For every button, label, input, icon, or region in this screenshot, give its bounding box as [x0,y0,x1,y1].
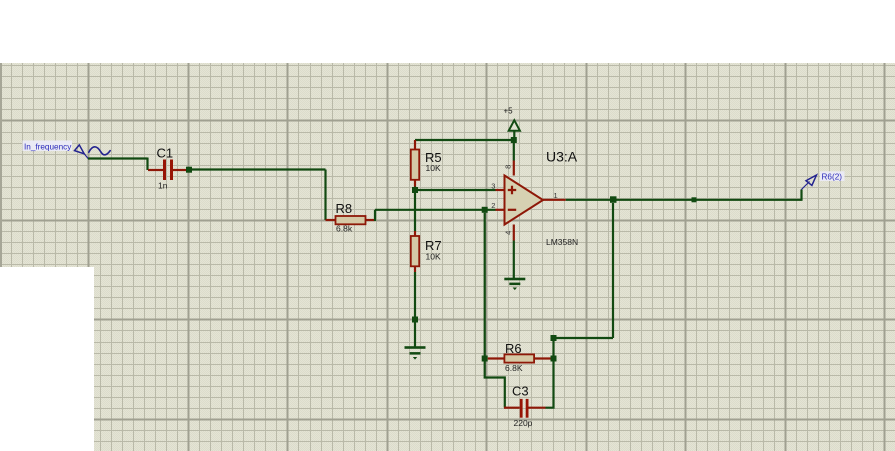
junction divider node [412,187,418,193]
pin 3 stub [496,189,505,191]
svg-text:3: 3 [491,181,495,190]
pin 4 stub [513,225,515,241]
junction at C1 output [186,167,192,173]
wire divider to pin3 [415,189,496,191]
junction +5 rail [511,137,517,143]
wire R8 up [374,210,376,221]
junction R6 right [551,356,557,362]
resistor R6 [488,354,551,362]
wire R7 to ground [414,272,416,347]
pin 2 stub [496,209,505,211]
node In_frequency label [23,141,73,152]
svg-text:8: 8 [503,165,512,169]
input terminal symbol [75,145,89,159]
svg-text:6.8K: 6.8K [505,363,523,373]
capacitor C1 [148,160,187,181]
wire R5 top to +5 rail [415,139,514,141]
junction R6 left [482,356,488,362]
svg-text:U3:A: U3:A [546,148,578,164]
wire inverting node down [484,213,486,359]
wire divider down to R7 [414,190,416,231]
op-amp U3:A [505,176,544,225]
wire R5 to divider node [414,187,416,191]
wire feedback to R6 right [552,338,554,359]
input sine wave symbol [89,147,110,155]
svg-text:R8: R8 [336,201,353,216]
junction at inverting input node [482,207,488,213]
junction on R7 ground wire [412,317,418,323]
wire down to R8 [324,170,326,221]
wire input horizontal [88,157,148,159]
svg-text:In_frequency: In_frequency [24,142,72,151]
junction feedback corner [551,335,557,341]
wire R8 to pin2 [375,209,496,211]
svg-text:1n: 1n [158,181,168,191]
svg-text:LM358N: LM358N [546,237,578,247]
wire output terminal riser [800,190,802,201]
svg-text:C3: C3 [512,383,529,398]
svg-text:10K: 10K [426,251,441,261]
resistor R5 [411,140,419,187]
ground symbol under R7 [405,346,426,359]
svg-text:C1: C1 [157,145,174,160]
wire feedback horizontal [554,337,614,339]
output terminal arrow [801,175,816,190]
svg-text:2: 2 [491,201,495,210]
wire input step down [146,158,148,171]
resistor R8 [326,216,376,224]
ground symbol under op-amp [504,278,525,290]
wire feedback down [612,203,614,338]
capacitor C3 [504,399,546,418]
wire rail to pin8 [513,140,515,161]
svg-text:4: 4 [503,231,512,235]
wire output [566,199,802,201]
svg-text:R6: R6 [505,341,522,356]
svg-text:6.8k: 6.8k [336,224,353,234]
junction output mid [692,197,697,202]
power +5 arrow symbol [509,120,520,131]
node R6(2) label [820,171,845,181]
svg-text:R6(2): R6(2) [822,173,843,182]
svg-text:1: 1 [554,191,558,200]
svg-text:+5: +5 [504,107,514,116]
wire C3 right leg [546,362,554,408]
resistor R7 [411,231,419,272]
wire C1 to R8 bend [192,168,326,170]
svg-text:220p: 220p [514,418,533,428]
pin 8 stub [513,161,515,176]
pin 1 stub [543,199,566,201]
wire +5 to rail junction [513,131,515,140]
wire pin4 to ground [513,241,515,279]
wire C3 left leg [485,362,505,408]
junction output feedback [610,196,617,203]
svg-text:10K: 10K [426,163,441,173]
